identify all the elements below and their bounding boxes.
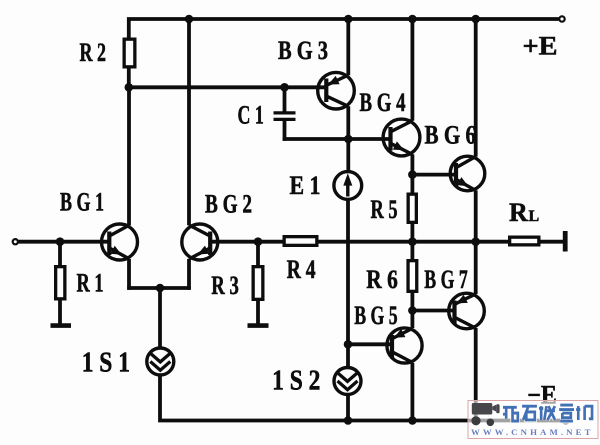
- junction top rail x412: [408, 15, 417, 24]
- svg-text:E 1: E 1: [290, 171, 321, 200]
- svg-text:R 6: R 6: [366, 265, 398, 294]
- svg-text:R 3: R 3: [211, 271, 239, 300]
- transistor BG4: [383, 119, 420, 156]
- wire R1 bottom lead: [58, 300, 62, 326]
- transistor BG1: [102, 224, 138, 260]
- resistor R1: [56, 267, 65, 299]
- wire R5 bottom lead: [410, 224, 414, 244]
- junction BG3 collector: [344, 135, 353, 144]
- svg-text:B G 1: B G 1: [60, 187, 104, 216]
- transistor BG6: [450, 156, 485, 191]
- svg-text:WWW.CNHAM.NET: WWW.CNHAM.NET: [471, 427, 594, 437]
- watermark box: [468, 401, 598, 439]
- resistor R3: [253, 267, 263, 300]
- wire RL to load bar: [540, 240, 564, 244]
- svg-text:L: L: [529, 208, 540, 225]
- wire BG4 emitter down: [410, 154, 414, 176]
- junction C1 top: [280, 83, 289, 92]
- ground below R3: [248, 323, 269, 328]
- transistor BG5 (PNP): [387, 328, 422, 363]
- resistor R5: [408, 194, 416, 222]
- wire input to BG1 base: [19, 240, 110, 244]
- svg-text:1 S 2: 1 S 2: [272, 366, 320, 397]
- wire R4 to RL: [318, 240, 510, 244]
- watermark chinese text (stylized strokes): [503, 405, 592, 421]
- current source E1: [334, 172, 362, 200]
- junction bottom rail x412: [408, 416, 417, 425]
- transistor BG2 (mirrored): [182, 224, 218, 260]
- wire R3 top lead: [256, 242, 260, 266]
- wire BG5 base: [346, 342, 392, 346]
- transistor BG7 (PNP): [449, 293, 485, 329]
- wire BG2 collector: [187, 19, 191, 225]
- wire E1 top lead: [346, 137, 350, 170]
- wire base line y87 to BG3: [127, 85, 326, 89]
- wire R2 bottom lead: [127, 69, 131, 90]
- wire 1S1 to bottom rail and -E rail: [160, 376, 562, 420]
- junction BG4 emitter R5: [408, 170, 417, 179]
- wire BG6 emitter down: [474, 190, 478, 243]
- svg-text:R 5: R 5: [371, 195, 398, 224]
- wire C1 top lead: [283, 86, 287, 113]
- svg-text:B G 7: B G 7: [424, 265, 468, 294]
- wire BG4 collector: [410, 19, 414, 121]
- junction emitters BG1 BG2: [156, 284, 165, 293]
- resistor R4: [284, 237, 317, 246]
- junction bottom rail x476: [471, 416, 480, 425]
- wire R3 bottom lead: [256, 301, 260, 326]
- junction input R1: [56, 237, 65, 246]
- wire top +E rail: [129, 19, 559, 38]
- svg-text:1 S 1: 1 S 1: [82, 348, 130, 379]
- svg-text:B G 4: B G 4: [360, 88, 406, 117]
- wire emitter join y288: [127, 286, 191, 290]
- junction top rail x476: [471, 15, 480, 24]
- junction top rail x348: [344, 15, 353, 24]
- junction BG5 base: [344, 340, 353, 349]
- svg-text:R 4: R 4: [287, 255, 316, 284]
- wire C1-BG4 line y139: [283, 137, 391, 141]
- wire BG1 collector: [127, 86, 131, 226]
- junction R6 BG7 base: [408, 306, 417, 315]
- current source 1S1: [147, 348, 174, 375]
- wire C1 bottom lead: [283, 120, 287, 141]
- +E terminal: [559, 16, 564, 21]
- junction R2 bottom: [125, 83, 134, 92]
- wire tail down to 1S1: [158, 288, 162, 347]
- wire R5 top lead: [410, 175, 414, 193]
- wire BG2 base: [211, 240, 260, 244]
- junction top rail x189: [185, 15, 194, 24]
- wire BG5 collector down: [410, 363, 414, 423]
- junction BG2 base R3: [254, 237, 263, 246]
- junction output mid: [471, 237, 480, 246]
- svg-text:R 2: R 2: [80, 38, 107, 67]
- wire BG6 base: [411, 173, 456, 177]
- current source 1S2: [334, 368, 361, 395]
- -E terminal: [563, 418, 569, 424]
- resistor R6: [408, 261, 417, 292]
- wire mid line to R4: [258, 240, 284, 244]
- wire BG3 collector down: [346, 106, 350, 141]
- svg-text:C 1: C 1: [238, 100, 264, 129]
- wire BG5 emitter up: [410, 309, 414, 329]
- wire BG7 emitter up: [474, 240, 478, 294]
- ground below R1: [51, 323, 72, 328]
- svg-text:B G 2: B G 2: [205, 190, 252, 219]
- svg-text:R: R: [509, 198, 528, 227]
- wire R1 top lead: [58, 242, 62, 266]
- wire BG7 base: [411, 309, 455, 313]
- svg-text:B G 3: B G 3: [278, 36, 328, 65]
- input terminal: [13, 239, 18, 244]
- wire BG2 emitter down: [187, 259, 191, 290]
- svg-text:R 1: R 1: [77, 269, 104, 298]
- wire BG1 emitter down: [127, 259, 131, 290]
- wire R6 top lead: [410, 242, 414, 260]
- wire BG3 emitter up: [346, 19, 350, 75]
- transistor BG3 (PNP): [318, 72, 355, 109]
- wire BG6 collector: [474, 19, 478, 157]
- capacitor C1: [274, 113, 296, 120]
- watermark camera icon: [471, 403, 499, 426]
- wire R6 bottom lead: [410, 293, 414, 313]
- resistor R2: [124, 39, 135, 67]
- svg-text:+E: +E: [523, 32, 558, 61]
- junction bottom rail x348: [344, 416, 353, 425]
- resistor RL: [510, 237, 539, 245]
- junction R5 R6 mid: [408, 237, 417, 246]
- wire 1S2 bottom lead: [346, 396, 350, 423]
- load terminal bar: [563, 231, 568, 252]
- svg-text:B G 5: B G 5: [354, 301, 398, 330]
- svg-text:B G 6: B G 6: [425, 121, 477, 150]
- wire BG7 collector down: [474, 328, 478, 422]
- wire E1 bottom to BG5 base junction to 1S2: [346, 201, 350, 367]
